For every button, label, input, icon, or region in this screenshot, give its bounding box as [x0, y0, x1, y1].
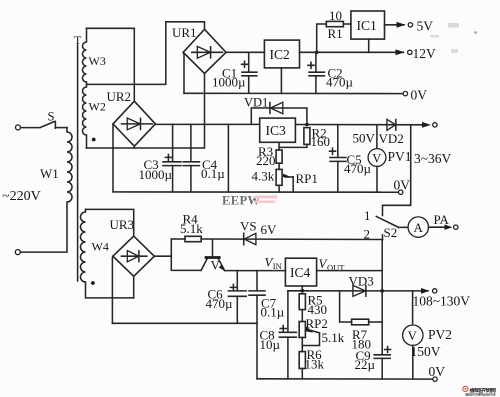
- bridge rectifier UR2: [107, 89, 156, 146]
- bottom 0V rail: [257, 378, 433, 380]
- svg-text:IN: IN: [273, 261, 282, 271]
- zener / S2 contact2 line: [201, 238, 382, 241]
- capacitor C3 1000u: [139, 124, 182, 191]
- regulator IC2: [264, 40, 299, 93]
- junction dot R2/VD1: [305, 123, 309, 127]
- 0V top rail: [184, 92, 403, 94]
- svg-text:W2: W2: [89, 100, 106, 114]
- svg-text:0.1µ: 0.1µ: [261, 305, 285, 320]
- svg-text:10µ: 10µ: [260, 337, 281, 352]
- svg-text:RP1: RP1: [296, 171, 318, 186]
- svg-text:S: S: [48, 110, 55, 124]
- svg-text:维库电子市场网专业电子市场: 维库电子市场网专业电子市场: [465, 392, 496, 397]
- 5V output terminal: [385, 19, 434, 34]
- svg-text:VD1: VD1: [244, 95, 268, 109]
- svg-text:0.1µ: 0.1µ: [201, 166, 225, 181]
- svg-text:5.1k: 5.1k: [322, 330, 345, 345]
- svg-text:0V: 0V: [411, 88, 428, 103]
- svg-text:160: 160: [311, 134, 331, 149]
- wire between C4 and IC3 region down to 0V rail: [227, 124, 229, 191]
- ADJ line below IC4: [288, 290, 382, 292]
- svg-text:V: V: [372, 151, 381, 165]
- 108~130V output terminal: [382, 288, 470, 309]
- transformer T core: [74, 33, 82, 281]
- bottom 0V terminal: [429, 364, 446, 382]
- 12V rail right of IC2 with junction: [300, 51, 404, 53]
- wire UR3 bottom vertex to W4 rail: [133, 276, 135, 298]
- capacitor C7 0.1u: [249, 271, 285, 379]
- capacitor C5 470u 50V: [330, 125, 376, 192]
- diode VD1 bypass over IC3: [244, 95, 307, 124]
- wire W3 top to UR2 top vertex: [87, 28, 135, 101]
- winding W1 (primary ~220V): [2, 128, 72, 255]
- vertical rail S2-2 / VOUT / C9: [381, 240, 383, 379]
- svg-text:5.1k: 5.1k: [180, 221, 203, 236]
- ammeter PA: [408, 212, 458, 237]
- svg-text:IC3: IC3: [266, 123, 287, 138]
- riser UR3+ to R4 line and collector: [171, 239, 201, 270]
- junction dot R1 branch: [315, 51, 319, 55]
- svg-text:IC1: IC1: [357, 18, 377, 33]
- svg-text:430: 430: [308, 302, 328, 317]
- VIN label: [265, 255, 282, 271]
- resistor R4 5.1k: [171, 212, 203, 242]
- svg-text:470µ: 470µ: [326, 75, 354, 90]
- svg-text:PA: PA: [434, 212, 450, 227]
- svg-text:50V: 50V: [353, 131, 376, 146]
- wire W2 bottom rail: [87, 147, 205, 149]
- wire rail B to C7 column: [112, 322, 257, 324]
- svg-text:A: A: [414, 220, 424, 235]
- resistor R5 430: [299, 292, 327, 321]
- svg-text:1: 1: [364, 208, 371, 223]
- svg-text:PV2: PV2: [428, 327, 452, 342]
- switch S: [16, 110, 68, 130]
- svg-text:1000µ: 1000µ: [139, 167, 173, 182]
- wire UR1 bottom vertex down to W2 rail: [204, 74, 206, 149]
- W4 polarity dot: [91, 281, 95, 285]
- svg-text:UR3: UR3: [110, 217, 135, 232]
- svg-text:470µ: 470µ: [206, 296, 234, 311]
- wire UR2 bottom vertex to W2 rail: [133, 146, 135, 148]
- rail right of IC3 to VD2 and 3~36V terminal: [295, 124, 424, 126]
- svg-text:1000µ: 1000µ: [212, 75, 246, 90]
- VIN rail from emitter: [225, 270, 286, 272]
- potentiometer RP2 5.1k: [299, 316, 345, 352]
- transistor V: [201, 239, 225, 272]
- VOUT label: [319, 256, 346, 272]
- svg-text:W3: W3: [89, 54, 106, 68]
- svg-text:S2: S2: [384, 225, 398, 240]
- svg-text:IC4: IC4: [290, 265, 311, 280]
- svg-text:VD2: VD2: [379, 131, 404, 146]
- wire UR3 right vertex to riser: [154, 255, 171, 257]
- svg-text:V: V: [408, 329, 417, 343]
- middle 0V terminal: [394, 178, 411, 195]
- svg-text:4.3k: 4.3k: [252, 169, 275, 184]
- svg-text:PV1: PV1: [388, 149, 412, 164]
- bridge rectifier UR3: [110, 217, 155, 276]
- svg-text:10: 10: [329, 8, 342, 23]
- diode VD2: [379, 119, 404, 146]
- regulator IC1: [351, 11, 385, 52]
- 12V rail from UR1 right vertex: [226, 51, 264, 53]
- regulator IC3: [260, 118, 296, 150]
- winding W4: [81, 209, 134, 298]
- svg-text:6V: 6V: [261, 222, 278, 237]
- watermark logo bottom-right: [463, 386, 496, 396]
- svg-text:470µ: 470µ: [344, 161, 372, 176]
- wire junction up to R1: [317, 24, 327, 52]
- svg-text:IC2: IC2: [270, 47, 290, 62]
- 3~36V output terminal: [422, 122, 437, 128]
- wire from rail down to switch S2 contact 1: [383, 125, 411, 216]
- W2 polarity dot: [92, 138, 96, 142]
- wire W4 top to UR3 top vertex: [86, 209, 134, 236]
- svg-text:12V: 12V: [413, 46, 437, 61]
- middle 0V rail: [113, 191, 398, 193]
- VOUT line: [317, 270, 383, 272]
- svg-text:W1: W1: [40, 166, 59, 181]
- svg-text:W4: W4: [92, 240, 109, 254]
- svg-text:0V: 0V: [429, 364, 446, 379]
- resistor R1 10: [326, 8, 351, 41]
- switch S2: [364, 208, 409, 242]
- capacitor C6 470u: [206, 271, 247, 324]
- svg-text:~220V: ~220V: [2, 189, 41, 204]
- svg-text:108~130V: 108~130V: [413, 294, 471, 309]
- wire UR1 left vertex to 0V rail: [182, 52, 185, 93]
- diode VD3: [349, 273, 374, 296]
- wire winding tap to UR1 top vertex (around left): [87, 22, 205, 85]
- resistor R2 160: [279, 125, 330, 149]
- voltmeter PV1: [368, 125, 451, 192]
- resistor R7 180: [340, 291, 383, 351]
- zener diode VS 6V: [240, 219, 277, 245]
- svg-text:R1: R1: [328, 26, 343, 41]
- svg-text:VS: VS: [240, 219, 257, 234]
- svg-text:V: V: [211, 258, 221, 273]
- svg-text:150V: 150V: [411, 344, 441, 359]
- wire UR2 left vertex down to middle 0V rail: [112, 124, 114, 192]
- regulator IC4: [285, 258, 316, 291]
- svg-text:13k: 13k: [305, 357, 325, 372]
- svg-text:RP2: RP2: [306, 316, 328, 331]
- capacitor C2 470u: [308, 52, 354, 93]
- svg-text:VD3: VD3: [349, 273, 374, 288]
- svg-text:T: T: [74, 33, 82, 47]
- middle + rail from UR2 right vertex: [155, 123, 259, 126]
- svg-text:UR1: UR1: [172, 25, 197, 40]
- winding W3 and W2 (secondary column): [83, 28, 106, 148]
- svg-text:5V: 5V: [417, 19, 434, 34]
- svg-text:UR2: UR2: [107, 89, 132, 104]
- svg-text:22µ: 22µ: [355, 357, 376, 372]
- resistor R6 13k: [299, 347, 324, 379]
- capacitor C9 22u: [355, 347, 391, 373]
- bridge rectifier UR1: [172, 25, 226, 74]
- svg-text:3~36V: 3~36V: [414, 151, 452, 166]
- svg-text:220: 220: [256, 153, 276, 168]
- capacitor C1 1000u: [212, 52, 257, 93]
- watermark EEPW center: [222, 194, 277, 208]
- potentiometer RP1 4.3k: [252, 169, 318, 193]
- capacitor C4 0.1u: [183, 124, 225, 191]
- svg-text:0V: 0V: [394, 178, 411, 193]
- resistor R3 220: [256, 144, 282, 169]
- 0V top terminal: [403, 88, 427, 103]
- 12V output terminal: [396, 46, 437, 61]
- output rail right with VD3 cathode junction: [380, 289, 384, 293]
- wire UR3 left vertex down to lower rail B: [111, 256, 114, 323]
- capacitor C8 10u: [260, 291, 297, 379]
- voltmeter PV2: [403, 291, 452, 379]
